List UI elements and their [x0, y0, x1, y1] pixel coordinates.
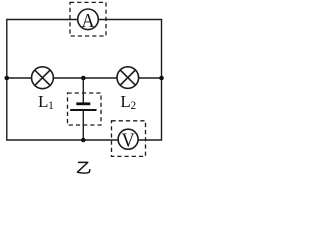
- ammeter A circle: [78, 9, 99, 30]
- battery dashed box: [68, 93, 102, 125]
- node: left middle junction: [5, 76, 10, 81]
- lamp L2: [117, 67, 139, 89]
- caption: Chinese character 乙 (drawn as path): [77, 162, 90, 173]
- wire: middle right (L2 to right node): [138, 77, 162, 79]
- wire: middle left (node to L1): [7, 77, 32, 79]
- voltmeter V dashed box: [112, 121, 146, 157]
- wire: top right segment: [98, 19, 162, 21]
- wire: battery bottom lead: [82, 110, 84, 140]
- wire: bottom left segment: [6, 139, 119, 141]
- wire: middle center (L1 to L2): [53, 77, 118, 79]
- lamp L1: [32, 67, 54, 89]
- battery cell: long plate (positive): [70, 109, 96, 111]
- wire: right vertical: [161, 20, 163, 141]
- svg-text:A: A: [81, 10, 94, 32]
- ammeter A dashed box: [70, 2, 106, 36]
- battery cell: short thick plate (negative): [76, 102, 90, 105]
- node: right middle junction: [159, 76, 164, 81]
- node: battery bottom junction: [81, 138, 86, 143]
- svg-text:L2: L2: [120, 92, 136, 112]
- wire: battery top lead: [82, 78, 84, 103]
- svg-text:L1: L1: [38, 92, 54, 112]
- wire: top left segment: [6, 19, 78, 21]
- voltmeter V circle: [118, 129, 138, 149]
- svg-text:V: V: [122, 130, 135, 152]
- wire: bottom right segment: [138, 139, 163, 141]
- wire: left vertical: [6, 20, 8, 141]
- node: battery top junction: [81, 76, 86, 81]
